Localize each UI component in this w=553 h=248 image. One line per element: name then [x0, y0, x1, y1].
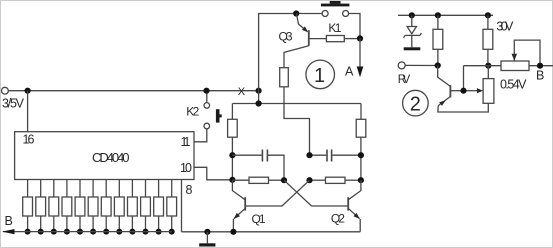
node: C2 left [306, 152, 312, 158]
svg-text:16: 16 [23, 133, 35, 147]
svg-text:1: 1 [314, 65, 325, 87]
node: Q1 emitter [230, 229, 236, 235]
resistor ladder R5 [75, 180, 85, 235]
svg-text:Q1: Q1 [252, 212, 266, 226]
bus B arrowhead [2, 229, 15, 234]
svg-text:8: 8 [186, 183, 193, 197]
resistor (RV branch) [437, 15, 439, 29]
resistor (Q1 collector load) [228, 119, 238, 137]
node: Q1 collector [229, 177, 235, 183]
svg-text:10: 10 [180, 161, 192, 175]
resistor ladder R4 [62, 180, 72, 235]
potentiometer 0.54V [487, 66, 489, 79]
wire: emitter to pot bottom [438, 103, 488, 112]
resistor (Q3 collector load) [280, 68, 289, 87]
potentiometer B [501, 61, 529, 71]
node: C1 left [229, 152, 235, 158]
wire: resistor to node A [344, 38, 360, 40]
transistor Q1 (NPN) [244, 197, 246, 210]
wire: right rail top [360, 104, 362, 120]
arrow to A [359, 38, 361, 68]
node: K2 on supply rail [203, 88, 209, 94]
circled 1 [306, 60, 335, 89]
node: second rail junction [256, 100, 262, 106]
node: R right top [485, 12, 491, 18]
svg-text:2: 2 [410, 93, 421, 115]
resistor ladder R3 [49, 180, 59, 235]
svg-text:K1: K1 [328, 21, 341, 35]
rail 30V [398, 14, 493, 16]
zener diode [411, 15, 413, 26]
capacitor C1 [232, 154, 261, 156]
wire: pin 11 to K2 lower contact [194, 129, 207, 142]
resistor (Q3 base) [326, 36, 344, 42]
circled 2 [403, 90, 429, 116]
svg-text:X: X [238, 86, 246, 98]
resistor ladder R1 [23, 180, 33, 235]
pushbutton K1 [321, 4, 350, 7]
svg-text:CD4040: CD4040 [92, 150, 130, 165]
wire: right rail lower [360, 137, 362, 180]
terminal 3/5V [2, 87, 9, 94]
wire: left rail top [231, 104, 233, 120]
node: C2 right [358, 152, 364, 158]
node: Q2 base network [306, 177, 312, 183]
svg-text:30V: 30V [496, 20, 514, 34]
wire: left rail lower [231, 137, 233, 180]
svg-text:A: A [345, 65, 354, 79]
resistor (30V branch) [487, 15, 489, 29]
wire: K1 right contact to node A [349, 14, 360, 39]
transistor Q3 (PNP) [308, 30, 310, 46]
wire: supply rail from terminal to node X [8, 90, 258, 92]
svg-text:Q3: Q3 [279, 30, 293, 44]
wire: wiper tie line [464, 65, 502, 67]
resistor ladder R9 [128, 180, 138, 235]
resistor ladder R2 [36, 180, 46, 235]
node: supply to pin16 junction [25, 88, 31, 94]
ground (zener) [404, 47, 421, 50]
node: divider junction [485, 63, 491, 69]
node: RV junction [435, 62, 441, 68]
node: R left top [435, 12, 441, 18]
transistor Q2 (NPN) [347, 197, 349, 210]
node A [357, 35, 363, 41]
svg-text:B: B [536, 69, 544, 83]
svg-text:Q2: Q2 [331, 212, 345, 226]
wire: pot to edge [529, 65, 553, 67]
svg-text:0.54V: 0.54V [500, 77, 527, 91]
resistor ladder R8 [114, 180, 124, 235]
resistor ladder R12 [167, 180, 177, 235]
svg-text:K2: K2 [186, 105, 199, 119]
wire: cross coupling left to Q2 base [284, 180, 348, 206]
node: zener top [409, 12, 415, 18]
wire: K2 upper contact to supply rail [206, 91, 208, 103]
node: Q3 emitter supply junction [293, 10, 299, 16]
wire: section1 left rail [259, 14, 322, 104]
wiper wire [463, 66, 465, 91]
node: ground stub [204, 229, 210, 235]
resistor (Q2 collector load) [356, 119, 366, 137]
wire: RV to junction [405, 64, 438, 66]
svg-text:3/5V: 3/5V [2, 97, 25, 111]
IC U1 CD4040 [15, 132, 194, 180]
capacitor C2 [310, 154, 327, 156]
svg-text:B: B [5, 214, 13, 228]
wire: junction down to IC pin 16 [27, 91, 29, 132]
node: Q2 collector [358, 177, 364, 183]
svg-text:11: 11 [181, 135, 191, 149]
node B [537, 63, 543, 69]
wire: pin 8 down to ground rail [181, 180, 183, 232]
wire: second rail [232, 103, 361, 105]
wire: emitter ground rail [182, 231, 361, 233]
wire: cross coupling right to Q1 base [246, 180, 310, 206]
transistor T (PNP, section 2) [449, 85, 451, 97]
resistor ladder R7 [101, 180, 111, 235]
terminal RV [398, 62, 405, 69]
wire: collector load down to Q2 base network [284, 87, 310, 155]
pushbutton K2 [204, 103, 210, 109]
bus B wire [3, 231, 172, 233]
node: Q1 base network [281, 177, 287, 183]
resistor ladder R10 [141, 180, 151, 235]
ground [206, 232, 208, 244]
node: wiper [460, 88, 466, 94]
resistor (Q2 base) [310, 179, 326, 181]
resistor ladder R11 [154, 180, 164, 235]
svg-text:RV: RV [398, 74, 411, 86]
wire: pin 10 to Q1 collector node [194, 167, 232, 180]
resistor ladder R6 [88, 180, 98, 235]
node X junction [256, 88, 262, 94]
resistor (Q1 base) [232, 179, 249, 181]
